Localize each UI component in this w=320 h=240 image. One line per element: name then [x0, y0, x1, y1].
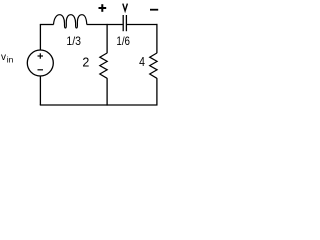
label: capacitor voltage minus sign	[150, 9, 158, 11]
wire: middle vertical from resistor R1 to bottom wire	[106, 78, 108, 106]
label: capacitor voltage v	[123, 4, 128, 11]
node: source label v_in	[1, 52, 14, 65]
inductor L1 (coil, 3 humps)	[54, 15, 87, 28]
resistor R1 zigzag (value 2)	[100, 53, 107, 78]
wire: left vertical, bottom of source to bottom wire	[39, 76, 41, 105]
wire: top horizontal from top-left corner to inductor	[40, 24, 54, 26]
wire: top horizontal from capacitor to top-right corner	[127, 24, 158, 26]
wire: bottom horizontal	[40, 104, 158, 106]
svg-text:in: in	[7, 55, 14, 65]
voltage source V1 minus mark	[38, 69, 44, 71]
label: capacitor voltage plus sign	[99, 4, 107, 12]
wire: left vertical, top of source to top wire	[39, 25, 41, 51]
wire: middle vertical from top wire down to resistor R1	[106, 24, 108, 53]
capacitor C1 left plate	[122, 15, 124, 31]
svg-text:v: v	[1, 52, 6, 63]
svg-text:4: 4	[139, 55, 145, 69]
capacitor C1 right plate	[125, 15, 127, 31]
svg-text:2: 2	[82, 55, 89, 69]
svg-text:1/3: 1/3	[66, 34, 81, 48]
voltage source V1 (circle)	[27, 50, 53, 76]
svg-text:1/6: 1/6	[116, 34, 130, 48]
voltage source V1 plus mark	[38, 53, 44, 58]
wire: top horizontal from inductor to capacitor	[87, 24, 123, 26]
wire: right vertical from resistor R2 to bottom-right corner	[156, 78, 158, 105]
resistor R2 zigzag (value 4)	[150, 53, 157, 78]
wire: right vertical from top-right corner down to resistor R2	[156, 24, 158, 53]
